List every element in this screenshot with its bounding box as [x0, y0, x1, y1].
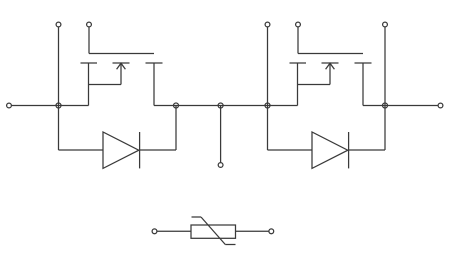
- terminal RT1 right: [269, 229, 274, 234]
- D2 cathode bar: [348, 132, 350, 168]
- wire Q2 body-to-source tie: [298, 84, 331, 86]
- diode D1 (antiparallel, left): [103, 132, 176, 168]
- wire D1 cathode horizontal: [140, 149, 176, 151]
- wire Q1 body-to-source tie: [89, 84, 122, 86]
- Q1 body contact bar: [113, 62, 130, 64]
- wire D2 anode horizontal: [268, 149, 313, 151]
- Q2 source contact bar: [290, 62, 307, 64]
- Q2 body arrow lead: [329, 64, 331, 85]
- transistor Q1 (MOSFET, left): [81, 25, 163, 106]
- node D (junction of bus, top terminal 7, D2 cathode leg): [383, 103, 388, 108]
- Q2 gate plate: [298, 53, 363, 55]
- wire D1 anode horizontal: [59, 149, 104, 151]
- wire vertical terminal 5 through node C down to D2 anode wire: [267, 25, 269, 151]
- terminal 6 (Q2 gate): [296, 22, 301, 27]
- wire main bus middle segment (Q1 drain to Q2 source lead): [154, 105, 298, 107]
- Q2 drain contact bar: [355, 62, 372, 64]
- terminal 1 (left AC terminal): [7, 103, 12, 108]
- D1 cathode bar: [139, 132, 141, 168]
- RT1 temperature stroke bottom tail: [225, 244, 235, 246]
- Q2 body contact bar: [322, 62, 339, 64]
- wire Q1 gate lead: [88, 25, 90, 54]
- Q1 source contact bar: [81, 62, 98, 64]
- terminal 7 (top, node D tap): [383, 22, 388, 27]
- Q1 body arrow lead: [120, 64, 122, 85]
- Q1 body arrow head: [117, 63, 126, 69]
- wire RT1 left lead: [157, 230, 191, 232]
- wire Q1 source lead down to bus: [88, 63, 90, 106]
- node M (junction of bus and middle terminal stub): [218, 103, 223, 108]
- wire D2 cathode horizontal: [349, 149, 385, 151]
- wire main bus right segment (Q2 drain to terminal 8): [363, 105, 441, 107]
- Q1 drain contact bar: [146, 62, 163, 64]
- node C (junction of bus, top terminal 5, D2 anode leg): [265, 103, 270, 108]
- wire middle terminal stub: [220, 106, 222, 163]
- terminal 5 (top, node C tap): [265, 22, 270, 27]
- RT1 temperature stroke top tail: [192, 216, 202, 218]
- wire RT1 right lead: [236, 230, 269, 232]
- wire main bus left segment (terminal 1 to Q1 source lead): [9, 105, 89, 107]
- wire vertical terminal 2 through node A down to D1 anode wire: [58, 25, 60, 151]
- Q2 body arrow head: [326, 63, 335, 69]
- wire Q2 drain lead down to bus: [362, 63, 364, 106]
- terminal 4 (middle tap): [218, 163, 223, 168]
- thermistor RT1 (NTC): [152, 217, 274, 245]
- D2 triangle: [312, 132, 348, 168]
- Q1 gate plate: [89, 53, 154, 55]
- wire Q2 gate lead: [297, 25, 299, 54]
- terminal 8 (right terminal): [438, 103, 443, 108]
- terminal 3 (Q1 gate): [87, 22, 92, 27]
- terminal 2 (top, node A tap): [56, 22, 61, 27]
- RT1 body rectangle: [191, 225, 236, 238]
- wire vertical terminal 7 through node D down to D2 cathode wire: [384, 25, 386, 151]
- wire Q1 drain lead down to bus: [153, 63, 155, 106]
- terminal RT1 left: [152, 229, 157, 234]
- RT1 temperature stroke diagonal: [201, 217, 225, 245]
- D1 triangle: [103, 132, 139, 168]
- wire Q2 source lead down to bus: [297, 63, 299, 106]
- transistor Q2 (MOSFET, right): [290, 25, 372, 106]
- node B (junction of bus and D1 cathode leg): [174, 103, 179, 108]
- node A (junction of bus, top terminal 2, D1 anode leg): [56, 103, 61, 108]
- wire D1 cathode leg up to node B: [175, 106, 177, 151]
- diode D2 (antiparallel, right): [312, 132, 385, 168]
